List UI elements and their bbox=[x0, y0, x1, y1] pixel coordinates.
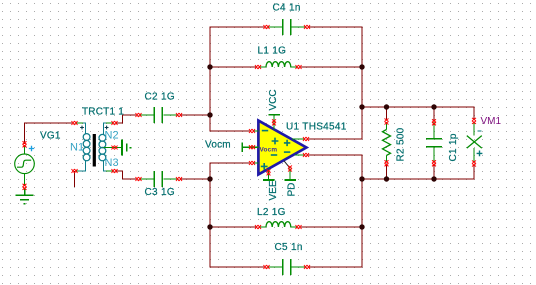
svg-text:R2 500: R2 500 bbox=[396, 127, 407, 161]
wire C3 right to left rail node B bbox=[181, 178, 210, 180]
junction R2 bottom bbox=[384, 176, 389, 181]
wire out+ to right rail bbox=[309, 138, 363, 140]
wire N3 bottom to C3 left bbox=[116, 171, 136, 180]
svg-text:C1 1p: C1 1p bbox=[448, 133, 459, 161]
op-amp U1 THS4541 bbox=[242, 115, 309, 180]
transformer TRCT1 bbox=[72, 121, 118, 173]
svg-text:PD: PD bbox=[286, 183, 297, 197]
junction right rail / out+ rail bbox=[359, 104, 364, 109]
wire C2 right to left rail node A bbox=[181, 114, 210, 116]
pin Vocm terminal bbox=[241, 143, 243, 153]
output stubs bbox=[292, 139, 305, 155]
svg-text:N3: N3 bbox=[105, 157, 119, 169]
wire VM1 top drop bbox=[473, 107, 475, 120]
resistor R2 bbox=[383, 119, 391, 167]
input stubs bbox=[254, 131, 258, 163]
junction C1 bottom bbox=[431, 176, 436, 181]
junction left rail / C3 bbox=[207, 176, 212, 181]
winding polarity dot N2 bbox=[105, 126, 109, 130]
wire R2 top stub bbox=[386, 107, 388, 120]
wire L1 right stub bbox=[301, 66, 362, 68]
wire bottom loop right bbox=[309, 266, 363, 268]
wire L2 left stub bbox=[210, 226, 256, 228]
wire R2 bottom stub bbox=[386, 165, 388, 179]
wire top loop right bbox=[309, 26, 363, 28]
capacitor C4 bbox=[264, 19, 311, 35]
wire top loop left bbox=[210, 26, 265, 28]
junction left rail / L2 bbox=[207, 224, 212, 229]
svg-text:VEE: VEE bbox=[268, 180, 279, 200]
junction right rail / L1 bbox=[359, 64, 364, 69]
svg-text:Vocm: Vocm bbox=[260, 146, 278, 153]
svg-text:C2 1G: C2 1G bbox=[145, 91, 175, 102]
wire C1 top stub bbox=[433, 107, 435, 121]
svg-text:N2: N2 bbox=[105, 130, 119, 142]
wire left rail upper (feedback minus) bbox=[210, 27, 250, 132]
wire N2 top to C2 left bbox=[116, 115, 136, 124]
wire left rail lower (feedback plus) bbox=[210, 163, 250, 268]
junction left rail / L1 bbox=[207, 64, 212, 69]
svg-text:L1 1G: L1 1G bbox=[258, 46, 287, 57]
wire VM1 bottom drop bbox=[473, 166, 475, 180]
voltmeter VM1 bbox=[467, 118, 483, 167]
junction R2 top bbox=[384, 104, 389, 109]
winding N2 bbox=[99, 123, 107, 148]
ground below VG1 bbox=[16, 188, 34, 204]
svg-text:Vocm: Vocm bbox=[205, 139, 231, 150]
wire N1 bottom to ground bbox=[74, 171, 76, 187]
wire C1 bottom stub bbox=[433, 166, 435, 180]
polarity marks bbox=[261, 131, 291, 170]
center tap wire + rotated ground bbox=[104, 139, 132, 155]
capacitor C1 bbox=[426, 119, 442, 166]
inductor L1 bbox=[255, 62, 302, 69]
inductor L2 bbox=[255, 222, 302, 229]
transformer core bbox=[93, 134, 96, 167]
capacitor C3 bbox=[136, 171, 183, 187]
wire top measure rail bbox=[362, 106, 475, 108]
capacitor C2 bbox=[136, 107, 183, 123]
svg-text:N1: N1 bbox=[70, 142, 84, 154]
winding polarity dot N1 bbox=[80, 126, 84, 130]
svg-text:TRCT1 1: TRCT1 1 bbox=[82, 107, 124, 118]
junction C1 top bbox=[431, 104, 436, 109]
wire right rail lower bbox=[361, 155, 363, 268]
svg-text:VCC: VCC bbox=[268, 89, 279, 110]
wire L1 left stub bbox=[210, 66, 256, 68]
pin PD bbox=[284, 161, 290, 168]
svg-text:C3 1G: C3 1G bbox=[145, 187, 175, 198]
svg-text:VG1: VG1 bbox=[40, 131, 61, 142]
pin VCC bbox=[273, 116, 275, 130]
wire bottom measure rail bbox=[362, 178, 475, 180]
generator VG1 bbox=[15, 141, 35, 186]
svg-text:VM1: VM1 bbox=[481, 116, 502, 127]
junction right rail / out- rail bbox=[359, 176, 364, 181]
wire out- to right rail bbox=[309, 154, 363, 156]
winding N3 bbox=[99, 147, 107, 171]
svg-text:C5 1n: C5 1n bbox=[275, 242, 303, 253]
winding N1 bbox=[78, 123, 90, 171]
wire VG1 top to N1 top bbox=[25, 123, 73, 145]
svg-text:C4 1n: C4 1n bbox=[273, 2, 301, 13]
junction left rail / C2 bbox=[207, 112, 212, 117]
wire L2 right stub bbox=[301, 226, 362, 228]
capacitor C5 bbox=[264, 259, 311, 275]
pin VEE bbox=[268, 170, 270, 180]
wire right rail upper bbox=[361, 27, 363, 140]
svg-text:U1 THS4541: U1 THS4541 bbox=[286, 121, 347, 132]
junction right rail / L2 bbox=[359, 224, 364, 229]
svg-text:L2 1G: L2 1G bbox=[257, 207, 286, 218]
wire bottom loop left bbox=[210, 266, 265, 268]
